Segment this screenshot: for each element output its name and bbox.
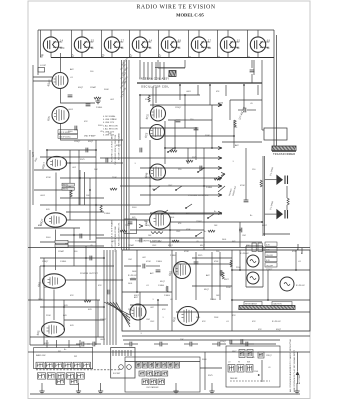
wire <box>286 186 288 198</box>
wire <box>69 150 71 220</box>
svg-text:6SK7: 6SK7 <box>232 351 236 353</box>
wire <box>298 244 302 254</box>
junction <box>43 265 45 267</box>
wire <box>265 179 277 181</box>
svg-text:6SQ7: 6SQ7 <box>78 87 84 89</box>
svg-text:12SA7: 12SA7 <box>128 244 135 247</box>
switch section <box>55 362 63 368</box>
junction <box>185 207 187 209</box>
wire <box>40 265 114 267</box>
wire <box>126 60 128 250</box>
svg-text:12SQ7: 12SQ7 <box>220 341 227 343</box>
switch section <box>246 365 253 373</box>
svg-text:OSC: OSC <box>176 231 181 233</box>
junction <box>139 94 141 96</box>
svg-text:50L6: 50L6 <box>128 283 132 285</box>
svg-text:12SQ7: 12SQ7 <box>175 107 182 109</box>
svg-text:2 MEG: 2 MEG <box>206 187 213 189</box>
svg-text:ANTENNA COIL ASSY: ANTENNA COIL ASSY <box>139 77 169 81</box>
svg-text:VOLUME CONTROL: VOLUME CONTROL <box>188 195 209 197</box>
svg-text:250K: 250K <box>112 119 117 121</box>
svg-text:.1: .1 <box>152 299 154 301</box>
wire <box>97 300 99 337</box>
IF label boxes 2 <box>62 183 74 186</box>
svg-text:AVC: AVC <box>60 47 65 50</box>
wire <box>123 339 280 341</box>
svg-text:.0001: .0001 <box>100 339 106 341</box>
wire <box>95 343 101 345</box>
svg-text:12SQ7: 12SQ7 <box>74 141 81 143</box>
wire <box>246 245 263 247</box>
svg-text:AVC: AVC <box>70 68 75 71</box>
svg-text:PADDER: PADDER <box>230 377 238 380</box>
wire <box>76 343 82 345</box>
wire <box>34 169 60 171</box>
capacitor <box>106 158 108 163</box>
arrow terminal <box>218 103 222 106</box>
wire <box>297 375 299 384</box>
capacitor <box>108 290 110 295</box>
junction <box>231 269 233 271</box>
wire <box>113 302 130 324</box>
wire <box>247 109 256 111</box>
junction <box>169 229 171 231</box>
resistor <box>260 180 262 187</box>
arrow terminal <box>139 224 143 227</box>
junction <box>239 229 241 231</box>
tube 6SQ7 <box>45 213 67 227</box>
wire <box>192 285 232 287</box>
resistor <box>151 232 163 234</box>
wire <box>140 94 200 96</box>
tube 6T <box>132 37 151 52</box>
svg-text:OSC: OSC <box>152 245 157 247</box>
wire <box>140 167 222 169</box>
wire <box>150 104 222 106</box>
wire <box>137 82 262 84</box>
svg-text:AVC: AVC <box>150 272 154 275</box>
wire <box>124 350 126 356</box>
arrow terminal <box>218 156 222 159</box>
wire <box>64 319 104 321</box>
svg-text:4. NO SIGNAL: 4. NO SIGNAL <box>103 115 115 118</box>
junction <box>89 189 91 191</box>
wire <box>40 257 104 259</box>
wire <box>162 343 168 345</box>
svg-text:ON-OFF: ON-OFF <box>266 265 274 267</box>
label boxes 3 <box>55 240 68 243</box>
wire <box>155 62 157 80</box>
wire <box>55 230 57 271</box>
junction <box>149 185 151 187</box>
switch section <box>237 365 244 373</box>
resistor <box>148 95 150 102</box>
wire <box>60 177 96 179</box>
svg-text:.01: .01 <box>146 285 149 287</box>
resistor <box>287 198 289 205</box>
wire <box>46 340 48 348</box>
wire <box>40 30 42 58</box>
tube 6E5 <box>174 262 191 279</box>
resistor <box>70 190 72 197</box>
wire <box>251 74 253 83</box>
capacitor <box>156 270 161 272</box>
ground <box>173 389 178 394</box>
svg-text:220K: 220K <box>46 315 51 317</box>
wire <box>112 250 114 345</box>
tube 6H6 <box>150 164 166 180</box>
wire <box>150 135 234 137</box>
IF amp label boxes <box>58 130 78 134</box>
wire <box>175 383 177 389</box>
wire <box>130 229 204 231</box>
switch section <box>239 350 245 358</box>
wire <box>136 250 138 292</box>
wire <box>272 151 296 153</box>
svg-text:500K: 500K <box>205 135 210 137</box>
wire <box>174 120 176 150</box>
capacitor <box>244 108 246 113</box>
wire <box>154 186 160 190</box>
wire <box>262 129 264 131</box>
capacitor <box>80 234 82 239</box>
wire <box>163 62 165 80</box>
wire <box>96 237 204 239</box>
wire <box>218 186 225 192</box>
svg-text:500K: 500K <box>38 299 43 301</box>
wire <box>150 241 262 243</box>
wire <box>55 173 57 212</box>
wire <box>157 300 159 330</box>
svg-text:.002: .002 <box>142 257 146 259</box>
switch section <box>142 379 149 385</box>
wire <box>218 174 225 180</box>
wire <box>149 140 151 205</box>
switch section <box>57 373 65 379</box>
capacitor <box>86 104 91 106</box>
wire <box>67 219 150 221</box>
wire <box>164 121 166 164</box>
svg-text:.0001: .0001 <box>68 109 74 111</box>
switch section <box>162 371 168 376</box>
junction <box>267 299 269 301</box>
wire <box>41 383 43 389</box>
junction <box>79 177 81 179</box>
ground <box>98 389 103 394</box>
wire <box>246 286 263 288</box>
wire <box>107 302 130 318</box>
svg-text:IF 455 KC: IF 455 KC <box>240 253 250 255</box>
svg-text:IF 455 KC: IF 455 KC <box>296 285 306 287</box>
switch section <box>38 373 46 379</box>
svg-text:470K: 470K <box>240 185 245 187</box>
junction <box>175 189 177 191</box>
capacitor <box>160 342 162 347</box>
wire <box>61 124 124 141</box>
tube 6SA7 <box>52 73 68 89</box>
svg-text:C20 .1 R25 47K SW-2 TONE: C20 .1 R25 47K SW-2 TONE <box>115 226 117 252</box>
wire <box>276 35 278 146</box>
junction <box>174 147 176 149</box>
wire <box>66 162 124 164</box>
svg-text:CAUTION: CAUTION <box>273 303 282 306</box>
tube 6V6 <box>150 211 171 229</box>
wire <box>95 250 97 345</box>
switch section <box>174 362 179 368</box>
tube 43 <box>104 37 123 52</box>
wire <box>132 343 138 345</box>
svg-text:AVC: AVC <box>186 212 191 215</box>
arrow terminal <box>218 193 222 196</box>
wire <box>65 279 123 281</box>
band switch cluster C <box>226 346 280 387</box>
svg-text:12SA7: 12SA7 <box>58 250 65 253</box>
svg-text:500K: 500K <box>226 287 231 289</box>
svg-text:6SQ7: 6SQ7 <box>160 281 165 283</box>
junction <box>207 217 209 219</box>
tube 6B <box>43 37 62 52</box>
wire <box>262 246 264 287</box>
wire <box>257 52 259 57</box>
wire <box>34 189 70 191</box>
svg-text:1. ALL RES 1/2W: 1. ALL RES 1/2W <box>103 124 118 127</box>
wire <box>125 361 200 363</box>
arrow terminal <box>218 176 222 179</box>
tube 6T <box>74 37 93 52</box>
wire <box>162 210 168 214</box>
wire <box>30 393 300 395</box>
wire <box>143 62 145 80</box>
wire <box>225 85 227 96</box>
wire <box>253 60 255 75</box>
junction <box>209 84 211 86</box>
ground <box>209 389 214 394</box>
wire <box>78 383 80 389</box>
wire <box>204 352 206 390</box>
junction <box>161 213 163 215</box>
wire <box>230 343 276 345</box>
svg-text:470K: 470K <box>46 177 51 179</box>
junction <box>239 269 241 271</box>
junction <box>136 291 138 293</box>
resistor <box>234 120 236 127</box>
tube socket box <box>111 348 135 379</box>
resistor <box>84 300 91 302</box>
svg-text:2 MEG: 2 MEG <box>210 299 217 301</box>
wire <box>158 30 160 58</box>
wire <box>121 60 123 250</box>
wire <box>187 148 189 164</box>
wire <box>188 30 190 58</box>
wire <box>251 60 253 68</box>
svg-text:TONE CONTROL SWITCH: TONE CONTROL SWITCH <box>135 241 161 243</box>
wire <box>232 299 310 301</box>
arrow terminal <box>221 172 225 175</box>
capacitor <box>140 148 142 153</box>
svg-text:IF 455 KC: IF 455 KC <box>128 275 138 277</box>
junction <box>243 84 245 86</box>
svg-text:470K: 470K <box>146 177 151 179</box>
tone box <box>124 219 137 234</box>
svg-text:ANT: ANT <box>32 152 35 157</box>
wire <box>198 168 204 172</box>
wire <box>79 170 81 205</box>
wire <box>239 222 241 247</box>
junction <box>231 299 233 301</box>
wire <box>89 178 91 240</box>
capacitor <box>246 342 248 347</box>
wire <box>139 95 141 140</box>
resistor <box>110 188 117 190</box>
wire <box>40 156 96 158</box>
svg-text:AVC: AVC <box>206 274 211 277</box>
svg-text:.01: .01 <box>268 367 271 369</box>
wire <box>101 30 103 58</box>
svg-text:ANT: ANT <box>218 102 223 105</box>
svg-text:R26 350 C22 20MFD CH1: R26 350 C22 20MFD CH1 <box>119 222 121 246</box>
switch section <box>36 362 44 368</box>
ground <box>76 389 81 394</box>
transformer coil (hatched) <box>239 306 296 310</box>
wire <box>78 150 80 205</box>
dashed wire <box>36 369 120 371</box>
wire <box>147 62 149 80</box>
wire <box>37 30 39 75</box>
junction <box>103 306 105 308</box>
wire <box>130 213 222 215</box>
svg-text:455 KC: 455 KC <box>63 185 69 187</box>
tube 6L6 <box>178 307 199 326</box>
svg-text:2ND IF 455KC: 2ND IF 455KC <box>59 137 71 139</box>
wire <box>87 343 93 345</box>
svg-text:470K: 470K <box>186 229 191 231</box>
svg-text:2 MEG: 2 MEG <box>164 295 170 297</box>
svg-text:6SQ7: 6SQ7 <box>168 245 173 247</box>
lamp/rectifier circle <box>280 277 294 291</box>
svg-text:6V6: 6V6 <box>232 241 235 243</box>
wire <box>40 241 96 243</box>
svg-text:OSC: OSC <box>242 235 247 237</box>
wire <box>109 250 111 345</box>
speaker cone 2 <box>276 209 283 220</box>
svg-text:.0001: .0001 <box>186 91 191 93</box>
wire <box>104 302 130 315</box>
capacitor <box>93 342 95 347</box>
wire <box>84 343 90 345</box>
junction <box>203 185 205 187</box>
wire <box>245 246 247 287</box>
tube 6SK7 <box>47 156 67 169</box>
wire <box>227 30 229 37</box>
wire <box>240 343 246 345</box>
wire <box>297 352 299 371</box>
wire <box>139 60 141 78</box>
svg-text:1. ALL RES 1/2W: 1. ALL RES 1/2W <box>103 127 118 130</box>
svg-text:ON-OFF: ON-OFF <box>266 255 274 257</box>
wire <box>139 52 141 57</box>
svg-text:ALL VOLTAGES MEASURED TO CHASS: ALL VOLTAGES MEASURED TO CHASSIS WITH VT… <box>289 339 292 392</box>
switch section <box>247 350 253 358</box>
terminal box stack <box>265 242 277 246</box>
resistor <box>214 178 221 180</box>
svg-text:250K: 250K <box>214 317 219 319</box>
wire <box>140 194 222 196</box>
resistor <box>220 270 222 276</box>
resistor <box>230 260 232 267</box>
svg-text:OSC: OSC <box>150 321 155 323</box>
capacitor <box>241 339 243 344</box>
switch section <box>168 362 173 368</box>
svg-text:500K: 500K <box>132 271 137 273</box>
arrow terminal <box>218 166 222 169</box>
switch section <box>64 362 72 368</box>
wire <box>176 263 232 265</box>
wire <box>34 227 80 229</box>
wire <box>239 250 241 270</box>
wire <box>159 62 161 80</box>
svg-text:TONE: TONE <box>125 225 131 227</box>
svg-text:470K: 470K <box>146 261 151 263</box>
wire <box>273 30 275 146</box>
wire <box>96 177 222 179</box>
wire <box>30 336 104 338</box>
capacitor <box>176 120 181 122</box>
tube 6 <box>250 37 269 52</box>
wire <box>96 204 150 206</box>
wire <box>155 67 185 69</box>
wire <box>127 350 129 356</box>
wire <box>243 85 245 108</box>
junction <box>153 189 155 191</box>
svg-text:100: 100 <box>144 221 147 223</box>
svg-text:6SQ7: 6SQ7 <box>88 141 94 143</box>
wire <box>120 185 222 187</box>
wire <box>28 351 310 353</box>
svg-text:50L6: 50L6 <box>170 217 174 219</box>
svg-text:2 MEG: 2 MEG <box>170 255 177 257</box>
switch section <box>155 362 160 368</box>
capacitor <box>194 128 199 130</box>
wire <box>261 60 263 130</box>
wire <box>29 150 31 345</box>
wire <box>66 211 104 213</box>
wire <box>169 222 171 247</box>
wire <box>230 99 262 101</box>
switch section <box>154 371 160 376</box>
wire <box>257 85 259 95</box>
capacitor <box>250 70 255 72</box>
wire <box>208 214 214 218</box>
svg-text:250K: 250K <box>170 213 175 215</box>
junction <box>149 167 151 169</box>
arrow terminal <box>218 103 222 106</box>
wire <box>198 30 200 37</box>
wire <box>262 156 264 236</box>
wire <box>257 30 259 37</box>
wire <box>61 89 96 104</box>
tube 6J5 <box>130 304 146 320</box>
wire <box>30 344 80 346</box>
switch section <box>47 373 55 379</box>
svg-text:220K: 220K <box>236 267 241 269</box>
switch section <box>142 362 147 368</box>
wire <box>233 120 235 148</box>
wire <box>116 302 130 327</box>
wire <box>130 350 132 356</box>
wire <box>211 383 213 389</box>
wire <box>168 52 170 57</box>
resistor <box>170 150 177 152</box>
